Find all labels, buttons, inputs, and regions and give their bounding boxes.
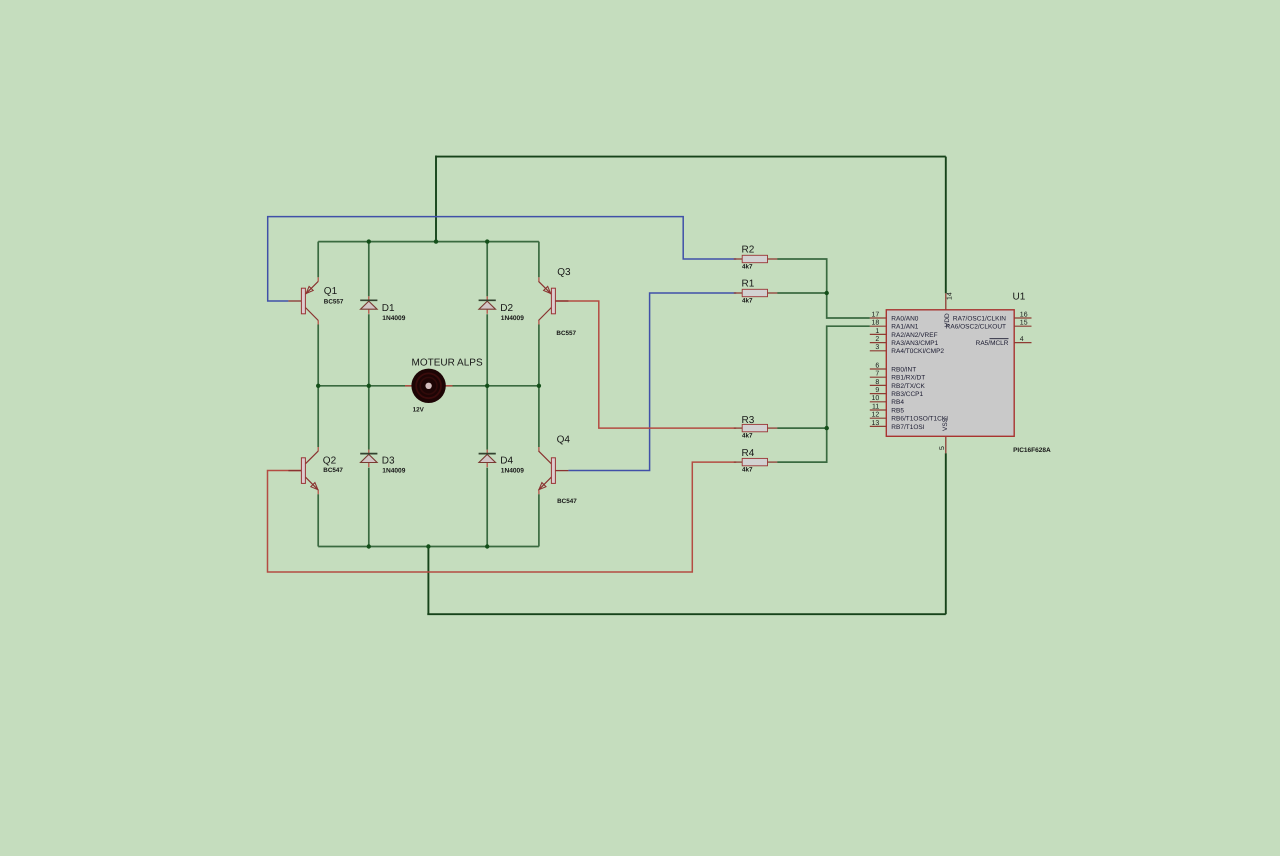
svg-text:MOTEUR ALPS: MOTEUR ALPS (412, 358, 483, 369)
svg-text:R1: R1 (742, 279, 755, 290)
pin 6 of U1 (RB0/INT) (870, 362, 916, 373)
wire blue Q4 base to R1 (568, 293, 736, 471)
wire R1 to junction (777, 292, 827, 294)
wire red Q3 base to R3 (555, 301, 736, 428)
svg-text:U1: U1 (1013, 291, 1026, 302)
svg-text:D1: D1 (382, 303, 395, 314)
svg-text:RB3/CCP1: RB3/CCP1 (891, 391, 923, 398)
svg-text:RA4/T0CKI/CMP2: RA4/T0CKI/CMP2 (891, 348, 944, 355)
svg-text:RB0/INT: RB0/INT (891, 366, 916, 373)
pin 17 of U1 (RA0/AN0) (870, 311, 919, 322)
wire Q1 emitter to top rail (317, 242, 319, 278)
transistor Q4 (BC547) (539, 451, 569, 490)
svg-text:Q2: Q2 (323, 456, 337, 467)
svg-text:13: 13 (872, 420, 880, 427)
svg-text:4k7: 4k7 (742, 264, 753, 271)
pin 18 of U1 (RA1/AN1) (870, 320, 919, 331)
svg-text:VDD: VDD (944, 313, 951, 327)
svg-text:12V: 12V (413, 407, 425, 414)
IC U1 PIC16F628A body (886, 310, 1014, 437)
wire R3 to junction (777, 427, 827, 429)
svg-text:12: 12 (872, 412, 880, 419)
svg-text:RA0/AN0: RA0/AN0 (891, 315, 918, 322)
pin 5 stub of U1 (945, 436, 947, 453)
svg-text:RA6/OSC2/CLKOUT: RA6/OSC2/CLKOUT (946, 324, 1006, 331)
svg-text:RB4: RB4 (891, 399, 904, 406)
wire motor rail (318, 385, 539, 387)
svg-text:14: 14 (947, 292, 954, 300)
wire GND right vertical to U1 pin 5 (945, 453, 947, 614)
svg-text:4: 4 (1020, 336, 1024, 343)
svg-text:4k7: 4k7 (742, 432, 753, 439)
node motor rail / D2 (485, 384, 489, 388)
resistor R2 (4k7) (734, 255, 778, 262)
pin 4 of U1 (RA5/MCLR) (976, 336, 1032, 347)
wire VCC vertical to H-bridge top rail (435, 156, 437, 242)
transistor Q1 (BC557) (288, 281, 318, 320)
wire H-bridge top rail (318, 241, 539, 243)
svg-text:15: 15 (1020, 320, 1028, 327)
svg-text:VSS: VSS (942, 417, 949, 431)
diode D1 (1N4009) (360, 300, 377, 309)
wire GND vertical from H-bridge bottom rail (427, 547, 429, 615)
svg-text:Q4: Q4 (557, 435, 571, 446)
wire diode cathode column (486, 242, 488, 297)
svg-text:8: 8 (875, 379, 879, 386)
transistor Q3 (BC557) (539, 281, 569, 320)
svg-text:RA1/AN1: RA1/AN1 (891, 324, 918, 331)
wire diode anode column (368, 309, 370, 314)
node top rail / D2 (485, 239, 489, 243)
svg-text:BC557: BC557 (324, 298, 344, 305)
diode D2 (1N4009) (479, 300, 496, 309)
wire Q3 collector to motor rail (538, 321, 540, 325)
svg-text:R4: R4 (742, 448, 755, 459)
svg-text:RA2/AN2/VREF: RA2/AN2/VREF (891, 332, 937, 339)
pin 2 of U1 (RA3/AN3/CMP1) (870, 336, 939, 347)
node top rail / D1 (367, 239, 371, 243)
svg-text:D2: D2 (500, 303, 513, 314)
svg-text:Q3: Q3 (557, 267, 571, 278)
svg-text:RA7/OSC1/CLKIN: RA7/OSC1/CLKIN (953, 315, 1006, 322)
pin 13 of U1 (RB7/T1OSI) (870, 420, 925, 431)
svg-text:4k7: 4k7 (742, 466, 753, 473)
node top rail / VCC (434, 239, 438, 243)
wire VCC right vertical to U1 pin 14 (945, 157, 947, 294)
svg-text:5: 5 (939, 446, 946, 450)
svg-text:R2: R2 (742, 244, 755, 255)
pin 16 of U1 (RA7/OSC1/CLKIN) (953, 311, 1032, 322)
pin 1 of U1 (RA2/AN2/VREF) (870, 328, 938, 339)
node bottom rail / D3 (367, 544, 371, 548)
wire Q2 collector to motor rail (317, 386, 319, 447)
resistor R3 (4k7) (734, 424, 778, 431)
node motor rail left (316, 384, 320, 388)
svg-text:1N4009: 1N4009 (501, 467, 524, 474)
resistor R1 (4k7) (734, 289, 778, 296)
pin 12 of U1 (RB6/T1OSO/T1CKI) (870, 412, 948, 423)
node bottom rail / GND (426, 544, 430, 548)
wire diode cathode column (486, 386, 488, 450)
svg-text:RB1/RX/DT: RB1/RX/DT (891, 375, 925, 382)
pin 3 of U1 (RA4/T0CKI/CMP2) (870, 344, 945, 355)
pin 15 of U1 (RA6/OSC2/CLKOUT) (946, 320, 1032, 331)
wire red Q2 base to R4 (268, 462, 737, 572)
svg-text:17: 17 (872, 311, 880, 318)
wire diode anode column (368, 463, 370, 468)
wire blue Q1 base to R2 (268, 217, 737, 301)
wire Q4 collector to motor rail (538, 386, 540, 447)
svg-text:RB2/TX/CK: RB2/TX/CK (891, 383, 925, 390)
wire Q1 collector to motor rail (317, 321, 319, 325)
wire diode anode column (486, 463, 488, 468)
svg-text:6: 6 (875, 362, 879, 369)
svg-text:16: 16 (1020, 311, 1028, 318)
svg-text:11: 11 (872, 403, 879, 410)
svg-text:1: 1 (875, 328, 879, 335)
node motor rail / D1 (367, 384, 371, 388)
svg-text:BC557: BC557 (556, 330, 576, 337)
svg-text:RA3/AN3/CMP1: RA3/AN3/CMP1 (891, 340, 938, 347)
resistor R4 (4k7) (734, 458, 778, 465)
motor MOTEUR ALPS pin stubs (405, 385, 413, 387)
wire junction to U1 pin 18 (827, 326, 870, 428)
pin 10 of U1 (RB4) (870, 395, 905, 406)
wire R4 to junction (777, 428, 827, 462)
svg-text:4k7: 4k7 (742, 297, 753, 304)
node R3-R4 junction (825, 426, 829, 430)
wire Q3 emitter to top rail (538, 242, 540, 278)
wire GND bottom horizontal (427, 613, 946, 615)
svg-text:1N4009: 1N4009 (382, 467, 405, 474)
wire R2 to junction (777, 259, 870, 318)
pin 11 of U1 (RB5) (870, 403, 905, 414)
wire H-bridge bottom rail (318, 546, 539, 548)
svg-text:9: 9 (875, 387, 879, 394)
node R1-R2 junction (825, 291, 829, 295)
transistor Q2 (BC547) (288, 451, 318, 490)
svg-text:R3: R3 (742, 415, 755, 426)
pin 8 of U1 (RB2/TX/CK) (870, 379, 926, 390)
svg-text:D3: D3 (382, 455, 395, 466)
svg-text:3: 3 (875, 344, 879, 351)
svg-text:RB5: RB5 (891, 407, 904, 414)
wire Q4 emitter to bottom rail (538, 490, 540, 494)
wire diode cathode column (368, 386, 370, 450)
svg-text:RB7/T1OSI: RB7/T1OSI (891, 424, 924, 431)
svg-text:18: 18 (872, 320, 880, 327)
svg-text:1N4009: 1N4009 (501, 315, 524, 322)
svg-text:BC547: BC547 (323, 467, 343, 474)
node bottom rail / D4 (485, 544, 489, 548)
pin 7 of U1 (RB1/RX/DT) (870, 371, 925, 382)
svg-text:1N4009: 1N4009 (382, 315, 405, 322)
motor MOTEUR ALPS body (411, 369, 445, 403)
wire Q2 emitter to bottom rail (317, 490, 319, 494)
svg-text:RA5/MCLR: RA5/MCLR (976, 340, 1009, 347)
node motor rail right (537, 384, 541, 388)
wire VCC top horizontal (436, 156, 946, 158)
pin 9 of U1 (RB3/CCP1) (870, 387, 924, 398)
wire diode cathode column (368, 242, 370, 297)
svg-text:7: 7 (875, 371, 879, 378)
diode D3 (1N4009) (360, 454, 377, 463)
svg-text:PIC16F628A: PIC16F628A (1013, 447, 1051, 454)
svg-text:10: 10 (872, 395, 880, 402)
svg-text:D4: D4 (500, 455, 513, 466)
svg-text:2: 2 (875, 336, 879, 343)
svg-text:BC547: BC547 (557, 498, 577, 505)
wire diode anode column (486, 309, 488, 314)
pin 14 stub of U1 (945, 293, 947, 310)
svg-text:Q1: Q1 (324, 286, 338, 297)
svg-text:RB6/T1OSO/T1CKI: RB6/T1OSO/T1CKI (891, 416, 948, 423)
diode D4 (1N4009) (479, 454, 496, 463)
